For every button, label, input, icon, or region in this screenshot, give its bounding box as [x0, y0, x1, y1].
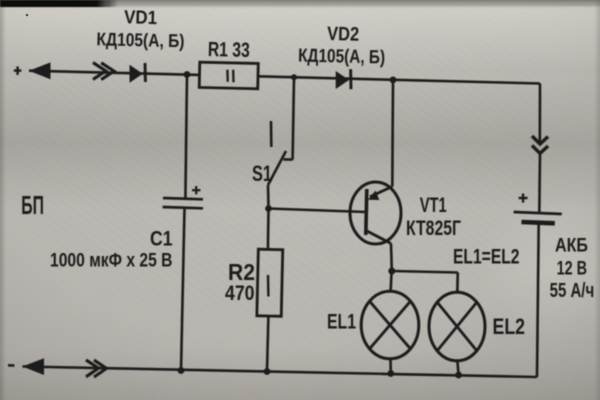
svg-text:VT1: VT1 — [420, 193, 447, 217]
svg-text:EL2: EL2 — [493, 314, 526, 339]
svg-text:VD2: VD2 — [327, 23, 360, 46]
svg-text:EL1=EL2: EL1=EL2 — [453, 246, 520, 269]
svg-text:470: 470 — [225, 281, 255, 305]
svg-text:C1: C1 — [150, 228, 173, 251]
svg-text:VD1: VD1 — [124, 7, 158, 29]
svg-text:1000 мкФ х 25 В: 1000 мкФ х 25 В — [50, 251, 173, 272]
svg-text:55 А/ч: 55 А/ч — [550, 280, 595, 302]
svg-text:EL1: EL1 — [327, 310, 356, 334]
svg-text:КТ825Г: КТ825Г — [406, 217, 461, 240]
svg-text:R1 33: R1 33 — [208, 38, 251, 62]
svg-text:АКБ: АКБ — [555, 236, 588, 257]
svg-text:КД105(А, Б): КД105(А, Б) — [96, 28, 184, 51]
svg-text:S1: S1 — [252, 161, 272, 186]
svg-text:12 В: 12 В — [557, 258, 588, 280]
svg-text:КД105(А, Б): КД105(А, Б) — [298, 46, 385, 69]
svg-text:БП: БП — [21, 190, 44, 220]
